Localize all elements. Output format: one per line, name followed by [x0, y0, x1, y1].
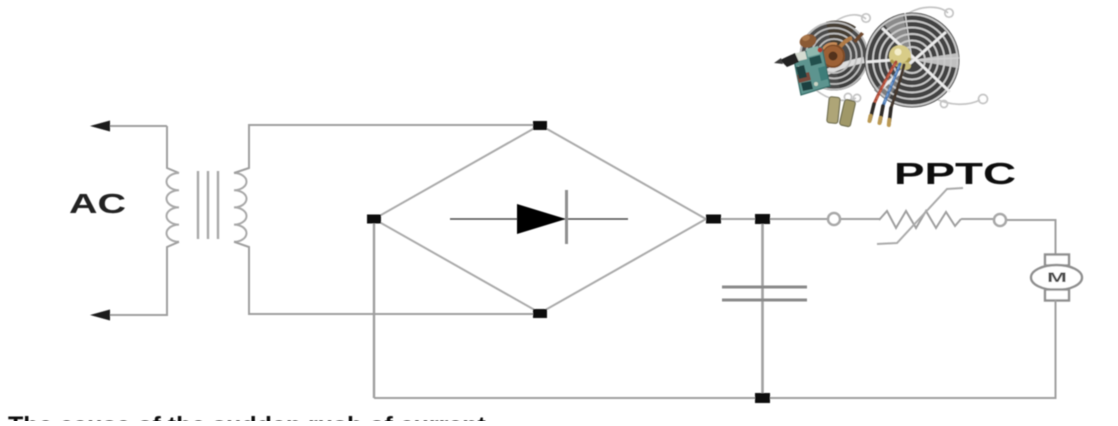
diode anode line — [450, 218, 628, 220]
PPTC F1 strike line — [877, 188, 963, 244]
wire primary top vertical — [167, 126, 179, 173]
transformer core — [198, 171, 218, 239]
right fan grill rings — [867, 15, 958, 106]
right fan radial supports — [878, 13, 959, 93]
svg-text:M: M — [1047, 269, 1067, 285]
capacitor C1 plates — [722, 287, 807, 300]
wire motor to bottom rail — [1055, 300, 1057, 399]
wire primary bottom vertical — [105, 242, 179, 315]
junction capacitor bottom — [755, 393, 770, 403]
bridge rectifier diamond — [374, 125, 706, 313]
left fan stator tan arc — [839, 38, 852, 48]
svg-text:PPTC: PPTC — [894, 156, 1016, 191]
motor M1 top brush — [1045, 255, 1069, 266]
wire terminal to PPTC — [841, 218, 880, 220]
diode triangle — [517, 204, 566, 234]
left fan light swaths — [806, 60, 864, 84]
svg-text:AC: AC — [69, 188, 126, 219]
junction bottom of bridge — [533, 309, 547, 318]
left fan blades — [800, 22, 869, 91]
junction left of bridge — [367, 215, 381, 224]
dark brown bracket above — [853, 32, 864, 43]
PPTC right terminal — [994, 214, 1006, 226]
left fan grill wire loops — [816, 14, 870, 102]
PPTC F1 zigzag — [879, 211, 961, 228]
wire terminal to motor — [1007, 220, 1056, 255]
fan wires — [874, 62, 904, 108]
left fan grill rings — [801, 23, 868, 90]
right fan grill wire loops — [906, 7, 988, 107]
wire secondary top to bridge — [234, 125, 540, 173]
junction capacitor top — [755, 214, 770, 224]
right fan blades — [865, 13, 960, 108]
wire pins — [870, 104, 892, 125]
right fan highlight streaks — [866, 28, 950, 92]
wire secondary bottom to bridge — [234, 242, 540, 314]
wire PPTC to right terminal — [961, 218, 994, 220]
motor M1 body — [1031, 265, 1082, 290]
right fan light sectors — [884, 14, 912, 60]
arrow AC bottom terminal — [90, 310, 110, 321]
brown inductor on PCB — [798, 32, 818, 50]
motor M1 bottom brush — [1045, 290, 1069, 301]
wire bridge left to bottom rail — [373, 219, 375, 398]
khaki prongs — [827, 97, 856, 127]
wire bridge output to PPTC terminal — [706, 218, 827, 220]
transformer secondary winding — [234, 173, 247, 242]
diode cathode bar — [565, 190, 568, 244]
arrow AC top terminal — [90, 121, 110, 132]
right fan hub — [889, 45, 911, 67]
junction right of bridge — [706, 215, 721, 224]
PPTC left terminal — [828, 213, 840, 225]
junction top of bridge — [533, 121, 547, 130]
wire bottom rail — [374, 397, 1056, 399]
wire top-left to AC arrow — [105, 125, 167, 127]
left fan rotor coil — [821, 44, 845, 68]
black probe — [780, 53, 799, 67]
left fan dark blade arcs — [826, 21, 856, 56]
capacitor C1 lead — [761, 219, 764, 398]
PCB assembly — [792, 46, 830, 95]
transformer primary winding — [167, 173, 180, 242]
svg-text:The cause of the sudden rush o: The cause of the sudden rush of current — [8, 412, 487, 421]
